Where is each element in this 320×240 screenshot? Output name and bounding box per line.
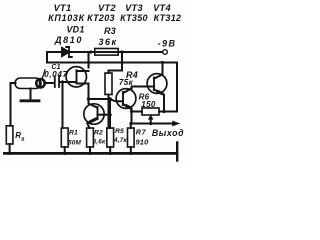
- svg-text:R1: R1: [69, 130, 78, 137]
- svg-text:Д810: Д810: [54, 35, 83, 45]
- svg-text:0,047: 0,047: [44, 70, 68, 79]
- svg-text:150: 150: [141, 100, 156, 109]
- svg-text:R2: R2: [94, 130, 103, 137]
- svg-text:д: д: [21, 137, 24, 143]
- svg-text:50М: 50М: [68, 140, 82, 147]
- svg-text:3,6к: 3,6к: [93, 139, 106, 146]
- svg-text:R7: R7: [136, 128, 147, 137]
- svg-text:Выход: Выход: [152, 128, 184, 138]
- svg-text:КП103К: КП103К: [48, 13, 86, 23]
- svg-text:VT1: VT1: [54, 3, 72, 13]
- svg-text:36к: 36к: [98, 37, 117, 47]
- svg-text:VT4: VT4: [153, 3, 171, 13]
- svg-text:4,7к: 4,7к: [113, 137, 127, 144]
- svg-text:R3: R3: [104, 26, 116, 36]
- svg-text:R5: R5: [115, 128, 124, 135]
- svg-text:VT2: VT2: [98, 3, 116, 13]
- svg-text:75к: 75к: [119, 78, 134, 87]
- svg-text:КТ350: КТ350: [120, 13, 148, 23]
- svg-text:КТ203: КТ203: [87, 13, 115, 23]
- svg-text:VD1: VD1: [66, 25, 84, 35]
- svg-text:-9В: -9В: [158, 39, 177, 49]
- svg-text:КТ312: КТ312: [154, 13, 182, 23]
- svg-text:910: 910: [135, 138, 149, 147]
- svg-text:VT3: VT3: [125, 3, 143, 13]
